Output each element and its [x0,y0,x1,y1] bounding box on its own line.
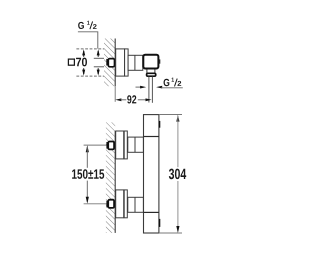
G1/2 bottom leader tail left [136,86,142,88]
hose pipe left line [148,77,150,103]
hose collar [147,73,156,76]
label square symbol [68,59,74,65]
dimension 70 arrow down [82,68,85,76]
150 extension line bottom [84,203,107,205]
upper union nut tab [106,142,108,149]
top knob nub [159,121,160,128]
square outlet block [143,55,158,69]
nipple left line [146,69,148,73]
label 92 [127,95,136,103]
G1/2 bottom underline [161,87,183,89]
dimension 70 arrow up [82,49,85,57]
304 dim line upper [177,116,179,167]
G1/2 bottom arrow right-pointing [140,86,146,89]
wall face line (top view) [114,39,116,87]
lower union cylinder [128,197,144,212]
150 dim line lower [86,181,88,202]
leader line from G1/2 label [78,32,98,49]
lower union cylinder divider [134,197,136,212]
G1/2 bottom arrow left-pointing [156,86,162,89]
92 arrow left-pointing [115,98,121,101]
upper union nut [108,142,114,150]
union cylinder [128,55,143,70]
hose pipe right line [151,77,153,103]
150 dim arrow down [86,197,89,204]
lower escutcheon ring [124,190,127,218]
304 extension line top [159,114,182,116]
lower union nut [108,200,114,208]
label 304 [169,169,186,180]
label 150±15 [72,169,104,179]
block side nub [159,59,160,63]
wall face line (bottom view) [114,131,116,233]
92 extension line (wall face) [114,86,116,102]
150 extension line top [84,144,107,146]
label G 1/2 top [78,21,96,29]
92 dim line left [121,99,127,101]
304 dim arrow down [176,226,179,233]
supply pipe upper line [94,57,107,59]
label G 1/2 bottom [164,78,182,87]
G1/2 leader arrow down [97,68,100,76]
body bottom cap line [144,211,159,213]
150 dim line upper [86,147,88,168]
label 70 [76,58,87,67]
304 dim arrow up [176,115,179,122]
extension line bottom dashed [76,75,115,77]
G1/2 leader arrow up [97,49,100,57]
union cylinder divider [134,55,136,70]
upper escutcheon plate [116,131,124,159]
150 dim arrow up [86,145,89,152]
lower escutcheon plate [116,190,124,218]
92 dim line right [138,99,146,101]
wall hatch (bottom view) [106,122,115,233]
nipple right line [154,69,156,73]
304 dim line lower [177,181,179,231]
union nut [108,59,114,67]
body top cap line [144,136,159,138]
304 extension line bottom [159,232,182,234]
supply pipe lower line [94,66,107,68]
upper union cylinder divider [134,137,136,152]
union nut tab [106,59,108,66]
thermostat body [144,115,159,233]
escutcheon front ring [125,49,129,76]
92 arrow right-pointing [146,98,152,101]
upper union cylinder [128,137,144,152]
escutcheon plate [116,49,125,76]
upper escutcheon ring [124,131,127,159]
bottom knob nub [159,219,160,227]
wall hatch (top view) [104,39,115,87]
lower union nut tab [106,201,108,208]
extension line top dashed [76,48,115,50]
